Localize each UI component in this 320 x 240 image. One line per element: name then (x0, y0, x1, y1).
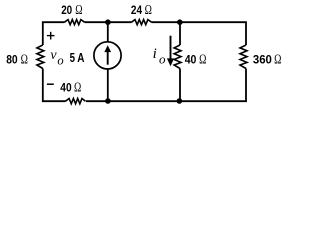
svg-text:o: o (57, 54, 63, 68)
svg-text:Ω: Ω (274, 52, 281, 67)
wire bottom left segment (43, 69, 66, 102)
polarity minus (v_o) (47, 83, 54, 85)
current arrow i_o (down) (170, 36, 172, 60)
wire current-source branch top (107, 22, 109, 42)
wire 40ohm branch top (179, 22, 181, 45)
resistor R 40ohm (middle, vertical) (174, 45, 181, 69)
wire top right segment (152, 22, 247, 45)
resistor R 24ohm (top, horizontal) (132, 20, 152, 25)
wire 40ohm branch bottom (179, 69, 181, 102)
svg-text:5: 5 (70, 50, 75, 65)
svg-text:40: 40 (60, 81, 71, 95)
svg-text:Ω: Ω (75, 2, 82, 17)
wire top middle (20ohm to 24ohm) (85, 21, 132, 23)
resistor R 40ohm (bottom, horizontal) (66, 99, 86, 104)
svg-text:Ω: Ω (145, 2, 152, 17)
node junction bottom C (105, 98, 111, 104)
svg-text:24: 24 (131, 3, 142, 17)
svg-text:40: 40 (185, 53, 197, 67)
wire current-source branch bottom (107, 69, 109, 101)
resistor R 360ohm (right, vertical) (240, 45, 247, 69)
node junction top A (105, 19, 111, 25)
svg-text:Ω: Ω (199, 52, 206, 67)
svg-text:i: i (153, 46, 157, 62)
svg-text:80: 80 (6, 52, 18, 66)
svg-text:v: v (50, 48, 57, 63)
node junction bottom D (177, 98, 183, 104)
current source arrow (up) (107, 51, 109, 65)
current source I1 5A circle (94, 42, 121, 69)
wire right bottom segment (86, 69, 246, 102)
svg-text:A: A (77, 50, 85, 65)
polarity plus (v_o) (47, 35, 55, 37)
resistor R 20ohm (top left, horizontal) (65, 20, 85, 25)
wire top-left segment (43, 22, 65, 45)
svg-text:Ω: Ω (21, 51, 28, 66)
svg-text:Ω: Ω (74, 80, 81, 95)
svg-text:360: 360 (253, 53, 272, 67)
node junction top B (177, 19, 183, 25)
svg-text:20: 20 (61, 3, 72, 17)
svg-text:o: o (159, 52, 166, 67)
resistor R 80ohm (left, vertical) (37, 45, 44, 69)
